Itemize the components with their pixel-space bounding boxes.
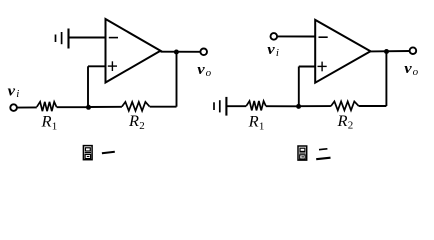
ground G2 (left-facing, at R1) — [214, 97, 226, 116]
output junction dot (fig2) — [384, 49, 389, 54]
resistor R1 (fig2) — [246, 101, 266, 110]
resistor R2 — [122, 102, 150, 111]
svg-text:R: R — [336, 112, 347, 130]
svg-text:i: i — [276, 47, 279, 59]
output wire — [161, 51, 201, 53]
resistor R2 (fig2) — [331, 101, 359, 110]
svg-text:o: o — [413, 66, 419, 78]
svg-text:1: 1 — [259, 120, 265, 132]
wire + input — [299, 66, 315, 68]
wire loop vertical to node A — [87, 66, 89, 107]
caption 圖一 (Figure 1) — [83, 146, 114, 160]
U1 minus sign — [109, 37, 118, 39]
wire R2 to feedback corner — [150, 106, 177, 108]
terminal vi (input, top) — [271, 33, 278, 40]
wire ground to R1 — [226, 105, 246, 107]
caption 圖二 (Figure 2) — [298, 146, 331, 160]
ground G1 (left-facing, at inverting input) — [56, 29, 69, 49]
wire vi to R1 — [17, 106, 37, 108]
svg-text:v: v — [267, 42, 275, 58]
output junction dot — [174, 50, 179, 55]
node A junction dot — [86, 105, 91, 110]
wire loop vertical to node B — [298, 67, 300, 107]
svg-text:v: v — [8, 83, 16, 99]
svg-text:2: 2 — [139, 120, 145, 132]
wire node A to R2 — [89, 106, 122, 108]
svg-text:i: i — [16, 88, 19, 100]
feedback vertical wire (fig2) — [385, 52, 387, 107]
op-amp U2 triangle — [315, 20, 370, 83]
terminal vi (input) — [10, 104, 17, 111]
wire R1 to node A — [57, 106, 89, 108]
terminal vo (fig2) — [410, 47, 417, 54]
resistor R1 — [37, 102, 57, 111]
feedback vertical wire — [176, 52, 178, 107]
output wire (fig2) — [371, 50, 410, 52]
U2 minus sign — [319, 36, 328, 38]
svg-text:R: R — [40, 112, 51, 130]
svg-text:2: 2 — [348, 119, 354, 131]
node B junction dot — [296, 104, 301, 109]
wire ground to - input — [69, 37, 106, 39]
svg-text:1: 1 — [52, 120, 58, 132]
svg-text:v: v — [404, 61, 412, 77]
wire vi to - input — [277, 35, 315, 37]
op-amp U1 triangle — [106, 19, 161, 83]
wire node B to R2 — [299, 105, 331, 107]
svg-text:o: o — [206, 67, 212, 79]
wire R1 to node B — [266, 105, 299, 107]
svg-text:R: R — [128, 112, 139, 130]
svg-text:R: R — [248, 113, 259, 131]
wire + input — [88, 65, 106, 67]
svg-text:v: v — [197, 62, 205, 78]
terminal vo (output) — [200, 49, 207, 56]
wire R2 to feedback corner — [359, 105, 387, 107]
U2 plus sign — [318, 62, 327, 72]
U1 plus sign — [108, 61, 117, 71]
